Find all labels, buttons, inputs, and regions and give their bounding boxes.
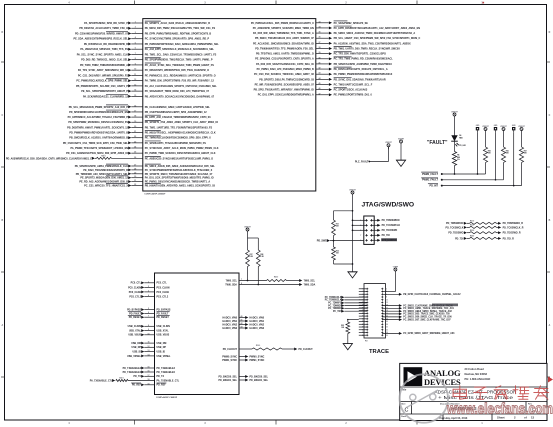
- svg-text:HADC0_VIN2: HADC0_VIN2: [250, 323, 265, 326]
- svg-text:PC_D01_EPPI_SCK/CLK/RD/D05/TMR: PC_D01_EPPI_SCK/CLK/RD/D05/TMR2/PWM1_A: [258, 94, 314, 97]
- svg-text:R26: R26: [506, 150, 509, 152]
- wire U1A right pin 42 net PE_D05/UART0/UART1_D00/LP0_CNT0/SCL_A: [257, 67, 388, 71]
- svg-text:6: 6: [148, 312, 149, 314]
- svg-text:PC_SMC0_ABE0_SMC0_SDSEL_TRACE_: PC_SMC0_ABE0_SMC0_SDSEL_TRACE_A02: [403, 310, 452, 313]
- svg-text:20 Cotton Road: 20 Cotton Road: [465, 367, 485, 371]
- svg-text:PD_TWI0_TMR2_TMR2/D05/D00/PWM0: PD_TWI0_TMR2_TMR2/D05/D00/PWM0_A: [80, 64, 128, 67]
- svg-text:PC_TR0: PC_TR0: [333, 311, 342, 313]
- svg-text:30: 30: [134, 176, 136, 178]
- svg-text:1: 1: [148, 281, 149, 283]
- svg-text:14: 14: [134, 89, 136, 92]
- wire net TWI0_SDA: [225, 267, 315, 287]
- svg-text:15: 15: [148, 367, 150, 369]
- svg-text:29: 29: [134, 172, 136, 174]
- resistor R21 series, wire net PD_TMSSWDIO: [446, 221, 523, 226]
- svg-text:PE_PWM0_PWM2/D05/RD/AMS1/PWM0/: PE_PWM0_PWM2/D05/RD/AMS1/PWM0/TWI1/D01X: [334, 73, 393, 76]
- svg-text:37: 37: [319, 42, 321, 44]
- svg-text:VDDEXT: VDDEXT: [500, 126, 506, 128]
- wire U1B left pin net USB_DM: [131, 342, 166, 345]
- ground square symbol bank 3: [512, 125, 516, 186]
- wire U1A left pin 27 net PE_SPI2/D01/SPI0_AMS1_PWM1/RSCLK_CLK: [75, 164, 216, 168]
- svg-text:PB_CS0/TWI1/MISO/SCL/EPPI_SPI2: PB_CS0/TWI1/MISO/SCL/EPPI_SPI2_AOEN/PWM0…: [145, 111, 207, 114]
- svg-text:PE_SCL_SPI0/PWM2/SPORT2_HWAIT_: PE_SCL_SPI0/PWM2/SPORT2_HWAIT_P: [81, 90, 128, 93]
- svg-text:PWM0_SYNC: PWM0_SYNC: [250, 356, 265, 358]
- svg-text:HADC0_VIN3: HADC0_VIN3: [223, 327, 238, 330]
- svg-text:PB_SPI2_TWI1/UART1_WR/ARDY_HWA: PB_SPI2_TWI1/UART1_WR/ARDY_HWAIT/PWM0_IO: [254, 89, 314, 92]
- wire U1A left pin 6 net PA_HWAIT/A03_SPI0/SCK_TWI0_TFS_FS: [80, 47, 214, 51]
- svg-text:12: 12: [148, 346, 150, 348]
- wire U1A left pin 1 net PA_SPORT1/MISO_SPI2_RD_SYNC_P: [84, 21, 210, 25]
- power + resistor R26 pull-up 2: [500, 126, 509, 180]
- svg-text:PD_TMSSWDIO_R: PD_TMSSWDIO_R: [503, 223, 524, 225]
- svg-text:19: 19: [134, 121, 136, 123]
- wire net PD_BKGD0_SEL: [218, 375, 268, 378]
- svg-text:PE_TMR0/RSCLK/D00/FS0/CS0/MOSI: PE_TMR0/RSCLK/D00/FS0/CS0/MOSI_SPI0_SDA_…: [145, 137, 211, 140]
- svg-text:+ Misc Parts /JTAG, Trace: + Misc Parts /JTAG, Trace: [438, 395, 514, 400]
- power VDDEXT above FAULT LED: [451, 111, 457, 135]
- wire JTAG left supply stub: [352, 224, 367, 226]
- svg-text:7: 7: [135, 53, 136, 55]
- wire U1B left pin net PD_TX: [133, 375, 164, 378]
- svg-text:R25: R25: [488, 150, 491, 152]
- wire U1A left pin 26 net PE_MOSI_UART0_RD_RD/TFS_PWM2_EN: [6, 155, 213, 160]
- svg-text:24: 24: [134, 146, 136, 149]
- svg-text:PD_TMSSWDIO: PD_TMSSWDIO: [446, 223, 464, 225]
- ground JTAG: [348, 264, 358, 278]
- title block: [400, 363, 547, 420]
- watermark red arrow right edge: [548, 377, 553, 383]
- svg-text:11: 11: [134, 74, 136, 76]
- resistor R38 TWI pull-up: [256, 250, 264, 267]
- svg-text:USB_XTAL: USB_XTAL: [129, 329, 142, 332]
- wire U1B left pin net USB_CLKIN: [128, 325, 170, 328]
- wire JTAG right net PD_TDI: [371, 234, 390, 237]
- svg-text:PD_TDI: PD_TDI: [382, 235, 391, 237]
- wire U1A left pin 9 net PD_TWI0_TMR2_TMR2/D05/D00/PWM0_A: [80, 63, 214, 67]
- svg-text:10: 10: [134, 69, 136, 71]
- svg-text:PD_CS0/UART1_CS1_TMR0_SCK_EPPI: PD_CS0/UART1_CS1_TMR0_SCK_EPPI_CS0_TWI0_…: [63, 142, 129, 145]
- wire JTAG right net PD_TCK/SWCLK: [371, 224, 400, 227]
- svg-text:PE_RD_A03_AOEN/AMS1/D05/WR_D05: PE_RD_A03_AOEN/AMS1/D05/WR_D05_B: [79, 181, 128, 184]
- svg-text:41: 41: [319, 61, 321, 64]
- wire net PD_INT bus: [428, 184, 522, 188]
- svg-text:46: 46: [319, 87, 321, 90]
- svg-text:PD_TWI0/HWAIT/FS0_TFS_PWM0/AOE: PD_TWI0/HWAIT/FS0_TFS_PWM0/AOEN_FS0_SEL: [255, 47, 314, 50]
- wire U1A left pin 2 net PB_D00/CS0_ACLK/UART1_TMR2_FS0_O: [79, 27, 215, 30]
- svg-text:PD_RESET: PD_RESET: [129, 317, 142, 319]
- svg-text:PE_D05/UART0/UART1_D00/LP0_CNT: PE_D05/UART0/UART1_D00/LP0_CNT0/SCL_A: [334, 68, 388, 71]
- svg-text:PC0_CLKIN: PC0_CLKIN: [157, 287, 170, 289]
- svg-text:PA_TXENABLE_CTL: PA_TXENABLE_CTL: [90, 379, 113, 382]
- svg-text:34: 34: [319, 25, 321, 28]
- svg-text:TWI0_SCL: TWI0_SCL: [225, 280, 237, 282]
- wire net HADC0_VIN2: [223, 322, 265, 326]
- wire net PC_TDM0FS TRACE left: [328, 301, 367, 304]
- wire net PC_GPIO_SMC0_ARDY_SMCWIRE_HWAIT_A03 TRACE right: [382, 332, 455, 335]
- svg-text:PC_EPPI_D05/RD/SYNC/AMS1/UART1: PC_EPPI_D05/RD/SYNC/AMS1/UART1_A12_ARDY/…: [334, 27, 421, 30]
- wire TRACE left stub: [359, 331, 367, 333]
- ADI logo: [404, 367, 423, 386]
- svg-text:PA_D01_SCK_SPORT2/TWI0/FS0/D00: PA_D01_SCK_SPORT2/TWI0/FS0/D00_MISO/TFS_…: [145, 177, 214, 180]
- wire U1A left pin 19 net PD_SPI2/PWM2_MOSI/SDA_D05/SCL/CS0/MOSI_FS: [68, 120, 218, 124]
- wire U1B left pin net PC0_CLKB: [129, 290, 169, 293]
- svg-text:PD_TDOSWO: PD_TDOSWO: [448, 233, 463, 235]
- wire U1B left pin net PC0_CTL: [131, 281, 168, 284]
- label TRACE: [369, 349, 389, 355]
- wire U1A left pin 13 net PB_PWM2/SPORT1_SCL/WR_CS0_UART1_P: [76, 84, 217, 87]
- svg-text:USB_DP: USB_DP: [157, 347, 167, 349]
- svg-text:PE_PWM1/SPORT2/TMR0_D01_0: PE_PWM1/SPORT2/TMR0_D01_0: [334, 94, 373, 97]
- wire net PWM1_FAULT bus: [421, 178, 503, 182]
- wire U1B left pin net USB_DP: [132, 346, 167, 349]
- svg-text:PD_SYNC_D01_SDA/DAI0_TWI0/UART: PD_SYNC_D01_SDA/DAI0_TWI0/UART1/UAR: [334, 78, 386, 81]
- svg-text:PD_TCKSWCLK_R: PD_TCKSWCLK_R: [503, 227, 524, 229]
- svg-text:PE_PWM1_D01/SYNC/AMS1/MOSI/SCK: PE_PWM1_D01/SYNC/AMS1/MOSI/SCK_TMR2/UART…: [145, 181, 211, 184]
- svg-text:PA_SCK/WR/SDA/CS1_CLK/WR/RD_12: PA_SCK/WR/SDA/CS1_CLK/WR/RD_12: [83, 95, 129, 98]
- svg-text:PD_TXENABLE0: PD_TXENABLE0: [123, 371, 142, 374]
- svg-text:USB_VRSEL: USB_VRSEL: [157, 356, 172, 358]
- svg-text:42: 42: [319, 67, 321, 70]
- svg-text:39: 39: [319, 52, 321, 54]
- wire U1A right pin 34 net PC_EPPI_D05/RD/SYNC/AMS1/UART1_A12_ARDY/ARDY_ABE0_AMS1_EN: [253, 25, 421, 29]
- wire JTAG left supply stub: [352, 219, 367, 221]
- svg-text:PD_PWM0/PWM2/ARDY/D05/SYNC/SDA: PD_PWM0/PWM2/ARDY/D05/SYNC/SDA_UART0_B: [69, 132, 128, 135]
- size / document number / rev row: [401, 403, 538, 414]
- wire net PLC_FAULT to power: [355, 142, 392, 163]
- wire JTAG left supply stub: [352, 229, 367, 231]
- svg-text:PB_SPORT2_D01/LP0_TMR0/CS1/SMC: PB_SPORT2_D01/LP0_TMR0/CS1/SMC0/RD_03: [259, 78, 314, 81]
- svg-text:PC_GPIO_SMC0_ARDY_SMCWIRE_HWAI: PC_GPIO_SMC0_ARDY_SMCWIRE_HWAIT_A03: [403, 332, 455, 335]
- svg-text:PD_BKGD1_SEL: PD_BKGD1_SEL: [218, 380, 237, 382]
- svg-text:PD_SPI2/PWM2_MOSI/SDA_D05/SCL/: PD_SPI2/PWM2_MOSI/SDA_D05/SCL/CS0/MOSI_F…: [68, 121, 128, 124]
- svg-text:PA_A12/D00_A03/TWI1_SDA_TWI1_C: PA_A12/D00_A03/TWI1_SDA_TWI1_CS0/TMR2/D0…: [334, 42, 411, 45]
- svg-text:PC_SYNC/SYNC/TMR0_SPI2/UART0_S: PC_SYNC/SYNC/TMR0_SPI2/UART0_SPI0_AMS1_R…: [145, 38, 210, 41]
- svg-text:8: 8: [148, 325, 149, 327]
- date / sheet row: [401, 415, 534, 420]
- wire TRACE left stub: [359, 321, 367, 323]
- wire U1A left pin 23 net PD_CS0/UART1_CS1_TMR0_SCK_EPPI_CS0_TWI0_SEL: [63, 141, 206, 145]
- svg-text:PC_MISO/CNT0_WR/D05/TWI1_D05_T: PC_MISO/CNT0_WR/D05/TWI1_D05_TWI1_DAI0/S…: [145, 69, 209, 72]
- svg-text:23: 23: [134, 141, 136, 143]
- svg-text:"FAULT": "FAULT": [427, 140, 448, 146]
- svg-text:PA_A12_CLK/FS0/AOEN_SPORT1_CNT: PA_A12_CLK/FS0/AOEN_SPORT1_CNT0/CS0_CS0/…: [145, 85, 217, 88]
- wire net PC_SMC0_D05_TRACE_SMC_CLKD05_T05 TRACE right: [382, 312, 450, 315]
- svg-text:25: 25: [134, 152, 136, 154]
- svg-text:8: 8: [135, 58, 136, 60]
- wire U1A right pin 36 net PB_SCL_HWAIT_CS0_SPI2/PWM2_WR_SPI2_FS0_SYNC/SPORT1_MOSI_C: [255, 37, 421, 40]
- title text: [401, 389, 516, 401]
- svg-text:8: 8: [241, 283, 242, 285]
- wire TRACE left stub: [359, 310, 367, 312]
- svg-text:PD_TCKSWCLK: PD_TCKSWCLK: [446, 227, 464, 229]
- svg-text:PA_HWAIT/A03_SPI0/SCK_TWI0_TFS: PA_HWAIT/A03_SPI0/SCK_TWI0_TFS_FS: [80, 48, 128, 51]
- wire JTAG right net PD_TDO/SWO: [371, 229, 397, 232]
- svg-text:4: 4: [148, 294, 149, 297]
- svg-text:PE_DAI0_TWI1/SMC0/DAI0/SPORT0_: PE_DAI0_TWI1/SMC0/DAI0/SPORT0_B: [83, 169, 128, 172]
- svg-text:PB_SPI2/CS1/SPI0_A03/PWM2_TMR2: PB_SPI2/CS1/SPI0_A03/PWM2_TMR2_DAI0/TWI1…: [334, 63, 393, 66]
- svg-text:USB_DM: USB_DM: [157, 343, 167, 345]
- wire U1B left pin net USB_VBUS: [128, 333, 169, 336]
- svg-text:COMP=ADSP-CM403F: COMP=ADSP-CM403F: [144, 193, 166, 196]
- wire U1B left pin net PD_RESET: [128, 315, 170, 319]
- svg-text:42: 42: [241, 322, 243, 325]
- svg-text:PA_TFS_SYNC_ARDY_SMC0/MOSI_WR_: PA_TFS_SYNC_ARDY_SMC0/MOSI_WR_12: [78, 69, 129, 72]
- svg-text:38: 38: [319, 47, 321, 49]
- svg-text:32: 32: [134, 184, 136, 186]
- svg-text:PE_SMC0_SMC0_A03/CS0_TMR0_D01/: PE_SMC0_SMC0_A03/CS0_TMR0_D01/MISO/UART1…: [334, 32, 416, 35]
- svg-text:7: 7: [241, 279, 242, 281]
- svg-text:VDDEXT: VDDEXT: [518, 126, 524, 128]
- svg-text:PE_D05/RSCLK_RD_RD/ABE0/SPI0_B: PE_D05/RSCLK_RD_RD/ABE0/SPI0_B: [84, 43, 128, 46]
- wire U1A left pin 20 net PB_D05/TMR0_HWAIT_PWM1/UART1_SCK/CNT0_12: [67, 126, 212, 129]
- wire U1A left pin 10 net PA_TFS_SYNC_ARDY_SMC0/MOSI_WR_12: [78, 69, 209, 72]
- svg-text:9: 9: [148, 329, 149, 331]
- svg-text:PC_SMC0_D06_SMCD_CLK_TRACE_TR_: PC_SMC0_D06_SMCD_CLK_TRACE_TR_D06: [403, 316, 452, 319]
- wire net TWI0_SCL: [225, 267, 315, 283]
- svg-text:PD_CS0/AMS1/PWM1/FS0_WR/RD_HWA: PD_CS0/AMS1/PWM1/FS0_WR/RD_HWAIT_07: [75, 32, 129, 35]
- resistor R24 series, wire net PD_TDI: [455, 235, 514, 241]
- svg-text:45: 45: [319, 82, 321, 85]
- svg-text:PA_D00_D05_SDA/TFS/AMS1/CS1_CN: PA_D00_D05_SDA/TFS/AMS1/CS1_CNT0_SDA_IO: [256, 63, 314, 66]
- svg-text:COMP=ADSP-CM403F: COMP=ADSP-CM403F: [156, 396, 178, 399]
- wire TRACE left stub: [359, 307, 367, 309]
- svg-text:VDDEXT: VDDEXT: [349, 189, 355, 191]
- wire TRACE left stub: [359, 329, 367, 331]
- svg-text:PA_TXENABLE_CTL: PA_TXENABLE_CTL: [157, 379, 180, 382]
- svg-text:TWI0_SDA: TWI0_SDA: [225, 283, 237, 286]
- wire U1A left pin 24 net PA_PWM0_TFS/UART0_SPI0/HWAIT_LP0/D01_EN: [70, 146, 218, 150]
- op-amp U1B secondary processor block section: [155, 273, 240, 399]
- svg-text:3: 3: [148, 290, 149, 292]
- svg-text:PE_SPI2/D01/SPI0_AMS1_PWM1/RSC: PE_SPI2/D01/SPI0_AMS1_PWM1/RSCLK_CLK: [75, 165, 128, 168]
- svg-text:PD_SWD: PD_SWD: [317, 239, 328, 242]
- svg-text:PE_SMC0_AOEN_D05_ABE0_A03/DAI0: PE_SMC0_AOEN_D05_ABE0_A03/DAI0/SMC0/A12_…: [145, 165, 216, 168]
- svg-text:11: 11: [148, 342, 150, 344]
- wire net PC_SMC0_D06_SMCD_CLK_TRACE_TR_D06 TRACE right: [382, 315, 452, 318]
- svg-text:PA_PWM0_TFS/UART0_SPI0/HWAIT_L: PA_PWM0_TFS/UART0_SPI0/HWAIT_LP0/D01_EN: [70, 147, 128, 150]
- svg-text:PC_TDM0BCLK: PC_TDM0BCLK: [325, 300, 342, 302]
- svg-text:PA_SPORT1_ACLK_DAI0_RSCLK_ABE0: PA_SPORT1_ACLK_DAI0_RSCLK_ABE0/AOEN/SYNC…: [145, 22, 210, 25]
- wire net PC_TDM0BCLK TRACE left: [325, 298, 367, 301]
- svg-text:USB_CLKIN: USB_CLKIN: [128, 326, 142, 328]
- svg-text:Nashua, NH 03063: Nashua, NH 03063: [465, 372, 488, 376]
- power VDDEXT JTAG: [349, 189, 355, 264]
- wire net PWM0_FAULT bus: [421, 172, 485, 176]
- wire U1B left pin net PA_TXENABLE_CTL: [90, 377, 180, 382]
- svg-text:27: 27: [134, 165, 136, 167]
- svg-text:PA_A03_EPPI_SPI2/RSCLK_MOSI/AC: PA_A03_EPPI_SPI2/RSCLK_MOSI/ACLK_SCK/WR/…: [145, 48, 215, 51]
- ground square symbol bank 2: [494, 125, 498, 180]
- svg-text:VDDEXT: VDDEXT: [385, 142, 391, 144]
- svg-text:47: 47: [319, 92, 321, 95]
- wire U1A left pin 4 net PE_SDA_ABE0/CNT0/PWM0/SPI2_RSCLK_SEL: [74, 36, 210, 40]
- svg-text:PC_CS1_WR/CS0_TFS_HWAIT/CS1_X: PC_CS1_WR/CS0_TFS_HWAIT/CS1_X: [84, 184, 128, 187]
- wire net PC_SMC0_CLKFRAME_SMC0_BACLK_TRC00 TRACE right: [382, 304, 458, 308]
- svg-text:PC_TFS_TWI0_PWM1_RD_CS0/WR/A03: PC_TFS_TWI0_PWM1_RD_CS0/WR/A03/SMC0/ACL: [334, 58, 394, 61]
- wire TRACE left stub: [359, 304, 367, 306]
- svg-text:PD_LED: PD_LED: [459, 145, 466, 147]
- svg-text:PD_BYPASS: PD_BYPASS: [127, 308, 141, 311]
- wire net PB_GPIO_CLKTRACE0_CLKMAGE_CHIPSEL_ACLK2 TRACE right: [382, 293, 461, 296]
- svg-text:PB_TWI1_UART1/RD_TFS_FS0/WR/TW: PB_TWI1_UART1/RD_TFS_FS0/WR/TWI1/SPORT0/…: [145, 126, 213, 129]
- svg-text:R33 0: R33 0: [119, 377, 123, 379]
- ANALOG DEVICES wordmark: [424, 368, 461, 387]
- wire U1A left pin 8 net PD_D05_RD_TWI0/SCL_MISO_CLK_SEL: [81, 58, 213, 62]
- svg-text:PE_SPI0/D00_CS1/LP0/SPORT2_CNT: PE_SPI0/D00_CS1/LP0/SPORT2_CNT0_SPORT0_A: [255, 58, 314, 61]
- svg-text:16: 16: [134, 105, 136, 107]
- wire net PD_SWDIO from label through R divider: [317, 239, 364, 242]
- svg-text:PB_TWI1_SCL_DAI0_CS0/ACLK_TFS/: PB_TWI1_SCL_DAI0_CS0/ACLK_TFS/MISO/SMC0_…: [145, 53, 217, 56]
- svg-text:PD_SPORT1_FS0_ABE0_ABE0_SPORT1: PD_SPORT1_FS0_ABE0_ABE0_SPORT1_CLK_ARDY_…: [145, 121, 218, 124]
- svg-text:PA_TMR0_D00_SPORT2/TMR0_FS0_RD: PA_TMR0_D00_SPORT2/TMR0_FS0_RD_WR_FS0/AR…: [145, 80, 215, 83]
- svg-text:PD_BKGD1_SEL: PD_BKGD1_SEL: [250, 380, 269, 382]
- wire TRACE left stub: [359, 301, 367, 303]
- svg-text:17: 17: [148, 375, 150, 377]
- svg-text:PD_PWM1/SPORT0/DAI0_DAI0_AMS1/: PD_PWM1/SPORT0/DAI0_DAI0_AMS1/AMS1_PWM0/…: [145, 43, 219, 46]
- wire net PWM1_SYNC: [222, 359, 264, 362]
- wire U1A right pin 45 net PC_TWI1/UART1/CS1/WR_SCL_F: [255, 82, 373, 86]
- svg-text:R31: R31: [336, 224, 339, 226]
- svg-text:VTREF: VTREF: [393, 266, 398, 268]
- svg-text:PB_PWM2/SPORT1_SCL/WR_CS0_UART: PB_PWM2/SPORT1_SCL/WR_CS0_UART1_P: [76, 85, 128, 88]
- power VDDEXT TWI pullup rail: [244, 226, 258, 250]
- wire U1A left pin 15 net PA_SCK/WR/SDA/CS1_CLK/WR/RD_12: [83, 94, 215, 98]
- wire TRACE left stub: [359, 288, 367, 290]
- svg-text:PD_CLKOUT: PD_CLKOUT: [299, 349, 314, 351]
- svg-text:HADC0_VIN0: HADC0_VIN0: [250, 316, 265, 319]
- svg-text:USB_VBUS: USB_VBUS: [157, 335, 170, 337]
- resistor R37 TWI pull-up: [246, 250, 254, 267]
- svg-text:HADC0_VIN3: HADC0_VIN3: [250, 327, 265, 330]
- wire U1A left pin 32 net PC_CS1_WR/CS0_TFS_HWAIT/CS1_X: [84, 184, 215, 188]
- wire net PD_BKGD1_SEL: [218, 379, 268, 382]
- svg-text:PD_TDI_R: PD_TDI_R: [503, 238, 515, 240]
- svg-text:21: 21: [134, 131, 136, 133]
- ground square symbol bank 1: [476, 125, 480, 174]
- svg-text:PD_RESET: PD_RESET: [157, 317, 170, 319]
- svg-text:PD_BKGD0_SEL: PD_BKGD0_SEL: [250, 376, 269, 378]
- svg-text:PD_TX: PD_TX: [133, 376, 141, 378]
- resistor R31: [332, 210, 354, 236]
- wire TRACE left stub: [359, 318, 367, 320]
- svg-text:R35: R35: [341, 325, 344, 327]
- svg-text:PB_D05/TMR0_HWAIT_PWM1/UART1_S: PB_D05/TMR0_HWAIT_PWM1/UART1_SCK/CNT0_12: [67, 126, 128, 129]
- svg-text:TWI0_SCL: TWI0_SCL: [304, 280, 316, 282]
- wire net HADC0_VIN0: [223, 315, 265, 319]
- svg-text:PA_SCL_SYNC_SYNC_SPORT0_AMS1_C: PA_SCL_SYNC_SYNC_SPORT0_AMS1_CLK: [77, 53, 129, 56]
- svg-text:PC_TDM0D0: PC_TDM0D0: [328, 305, 342, 307]
- svg-text:41: 41: [241, 319, 243, 322]
- svg-text:PE_SCL_MISO/AOEN_PWM0_SPORT2_A: PE_SCL_MISO/AOEN_PWM0_SPORT2_A12_D05_P: [69, 106, 129, 109]
- svg-text:PC_PWM1_DAI0_LP0_FS0/ABE0_MISO: PC_PWM1_DAI0_LP0_FS0/ABE0_MISO_PWM0_B: [257, 68, 314, 71]
- svg-text:PD_SPORT0_SMC0_TWI1/MOSI/ARDY/: PD_SPORT0_SMC0_TWI1/MOSI/ARDY/ABE0_SCL/S…: [145, 173, 213, 176]
- wire JTAG right net SYS_HWRST: [371, 238, 397, 242]
- svg-text:PD_INT: PD_INT: [429, 184, 438, 187]
- wire U1A right pin 46 net PC_SPORT1/SCK_ACLK/A03: [254, 87, 368, 91]
- svg-text:12: 12: [134, 79, 136, 81]
- wire net HADC0_VIN1: [223, 319, 265, 323]
- svg-text:PD_CLKOUT: PD_CLKOUT: [223, 349, 238, 351]
- wire U1A right pin 41 net PB_SPI2/CS1/SPI0_A03/PWM2_TMR2_DAI0/TWI1X: [256, 61, 392, 65]
- wire TRACE left stub: [359, 326, 367, 328]
- svg-text:18: 18: [148, 379, 150, 381]
- svg-text:PWM0_FAULT: PWM0_FAULT: [422, 173, 439, 176]
- svg-text:R39 0: R39 0: [256, 345, 260, 347]
- svg-text:PB_SCL_HWAIT_CS0_SPI2/PWM2_WR_: PB_SCL_HWAIT_CS0_SPI2/PWM2_WR_SPI2_FS0_S…: [334, 37, 421, 40]
- svg-text:PWM1_SYNC: PWM1_SYNC: [222, 360, 237, 362]
- svg-text:13: 13: [134, 84, 136, 86]
- wire U1A left pin 21 net PD_PWM0/PWM2/ARDY/D05/SYNC/SDA_UART0_B: [69, 131, 216, 135]
- svg-text:PC0_CTL2: PC0_CTL2: [157, 296, 169, 298]
- svg-text:PC0_CLKB: PC0_CLKB: [157, 292, 170, 294]
- svg-text:PC_TDM0FS: PC_TDM0FS: [328, 303, 342, 305]
- svg-text:PC_TFS_D00_HWAIT/SPORT1_CS0/SC: PC_TFS_D00_HWAIT/SPORT1_CS0/SCL/SPO: [334, 53, 386, 56]
- svg-text:PC_PWM0_TWI0_SCK/D01_D05/CNT0/: PC_PWM0_TWI0_SCK/D01_D05/CNT0/DAI0/D01_H…: [145, 152, 216, 155]
- svg-text:PE_MOSI_D05_TMR2_RSCLK/AMS1/TF: PE_MOSI_D05_TMR2_RSCLK/AMS1/TFS_TWI1_WR_…: [145, 27, 216, 30]
- wire U1B left pin net USB_VRSEL: [127, 353, 171, 357]
- wire TRACE left stub: [359, 334, 367, 336]
- wire U1B left pin net PD_FAULT: [128, 312, 170, 316]
- wire U1B left pin net PD_TXENABLE2: [123, 367, 176, 370]
- svg-text:33: 33: [319, 21, 321, 23]
- svg-text:USB_DP: USB_DP: [132, 347, 142, 349]
- svg-text:PD_SPI2/WR/D01/RSCLK/PWM1/D01/: PD_SPI2/WR/D01/RSCLK/PWM1/D01/MISO/LP0_E…: [69, 111, 128, 114]
- svg-text:USB_ID: USB_ID: [132, 351, 141, 353]
- svg-text:PD_TXENABLE0: PD_TXENABLE0: [157, 371, 176, 374]
- svg-text:PC_TDM0D1: PC_TDM0D1: [328, 308, 342, 310]
- svg-text:PD_TDO/SWO: PD_TDO/SWO: [382, 230, 398, 232]
- resistor R23 series, wire net PD_TDOSWO: [448, 230, 521, 235]
- svg-text:2: 2: [148, 286, 149, 288]
- svg-text:PC_ACLK_SYNC_SDA_TWI0/DAI0_TWI: PC_ACLK_SYNC_SDA_TWI0/DAI0_TWI0_PWM2_HWA…: [145, 64, 214, 67]
- ADI address: [465, 367, 491, 381]
- svg-text:PE_ACLK/D01_SMC0/D05/SMC0_SDA/: PE_ACLK/D01_SMC0/D05/SMC0_SDA/SDA/TMR0_I…: [253, 42, 314, 45]
- resistor R32: [332, 236, 354, 265]
- wire U1B left pin net PC0_CLKIN: [128, 286, 170, 289]
- svg-text:PC0_CTL2: PC0_CTL2: [129, 296, 141, 298]
- svg-text:28: 28: [134, 168, 136, 170]
- svg-text:VDDEXT: VDDEXT: [244, 226, 250, 228]
- wire net PWM0_SYNC: [222, 355, 264, 358]
- wire U1A left pin 11 net PC_CS1_D01/ARDY_WR/WR_SPI2/SPI0_FS: [78, 74, 216, 77]
- svg-text:USB_DM: USB_DM: [131, 343, 141, 345]
- wire net PC_SMC0_AMS1_TRACE_SMCWIRE_TRC_A01 TRACE right: [382, 307, 454, 310]
- svg-text:VDDEXT: VDDEXT: [482, 126, 488, 128]
- svg-text:USB_CLKIN: USB_CLKIN: [157, 326, 171, 328]
- svg-text:2: 2: [135, 27, 136, 29]
- wire U1A left pin 12 net PC_PWM1/RSCLK/RSCLK_SPI0_PWM0_SEL: [76, 79, 214, 83]
- wire net PC_TDM0D1 TRACE left: [328, 307, 367, 310]
- svg-text:PC0_CTL: PC0_CTL: [131, 283, 142, 285]
- svg-text:PC_ABE0/SPI0_SPORT2_SCK/SPI0_M: PC_ABE0/SPI0_SPORT2_SCK/SPI0_MISO_TMR2_E…: [253, 27, 314, 30]
- wire TRACE left stub: [359, 315, 367, 317]
- svg-text:TRACE: TRACE: [369, 349, 389, 355]
- svg-text:PD_TMR2/WR_A03_SPI2/UART1/UART: PD_TMR2/WR_A03_SPI2/UART1/UART1_SEL: [76, 173, 129, 176]
- svg-text:3: 3: [135, 32, 136, 34]
- svg-text:PD_FAULT: PD_FAULT: [129, 312, 141, 315]
- svg-text:PC_SYNC/SCK_ARDY_ACLK_MOSI_PWM: PC_SYNC/SCK_ARDY_ACLK_MOSI_PWM1_PWM2_PWM…: [145, 147, 219, 150]
- svg-text:PD_REF: PD_REF: [157, 385, 167, 387]
- svg-text:PC_TDM0ACLK: PC_TDM0ACLK: [325, 296, 342, 299]
- wire U1A left pin 7 net PA_SCL_SYNC_SYNC_SPORT0_AMS1_CLK: [77, 53, 217, 56]
- svg-text:PD_TDOSWO_R: PD_TDOSWO_R: [503, 233, 521, 235]
- svg-text:R30 0: R30 0: [101, 155, 105, 157]
- power to ground pair: [396, 138, 406, 166]
- svg-text:PA_D05_WR_ABE0_TWI0/MISO_TFS_T: PA_D05_WR_ABE0_TWI0/MISO_TFS_TWI1_SYNC_A: [253, 32, 314, 35]
- svg-text:PB_TFS/TWI1_AMS1_UART0_TMR2/D0: PB_TFS/TWI1_AMS1_UART0_TMR2/D05/PWM1_O: [256, 53, 314, 56]
- svg-text:31: 31: [134, 180, 136, 182]
- svg-text:PD_TXENABLE2: PD_TXENABLE2: [157, 367, 176, 370]
